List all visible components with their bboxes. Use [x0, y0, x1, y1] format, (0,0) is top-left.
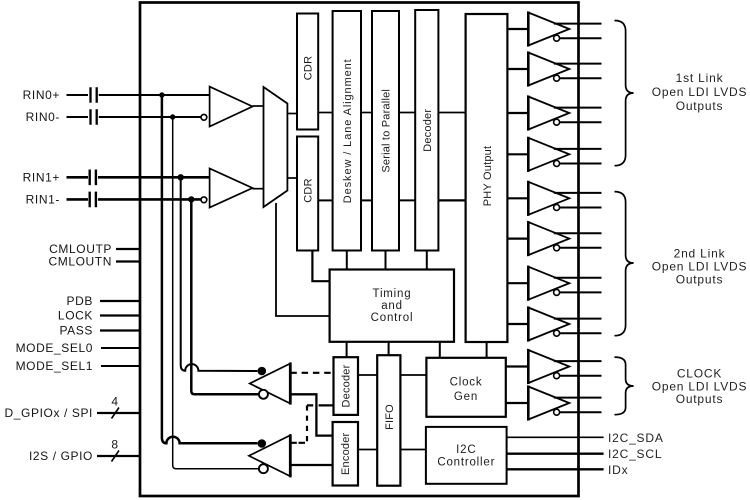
svg-text:8: 8: [111, 438, 118, 452]
capacitor on RIN1-: [90, 192, 96, 208]
input amp U2 (RIN1): [210, 169, 253, 208]
wire from RIN1+ down to SPI GPIO buffer (with hop): [181, 177, 258, 371]
wire U2 output to mux: [253, 188, 265, 190]
svg-text:Encoder: Encoder: [340, 432, 352, 475]
svg-text:RIN1+: RIN1+: [23, 170, 60, 184]
svg-text:RIN1-: RIN1-: [26, 192, 60, 206]
wire Decoder to PHY (lower): [438, 199, 465, 201]
wire MODE_SEL1 stub: [101, 365, 141, 367]
wire FIFO to Clock Gen: [400, 374, 426, 376]
svg-text:and: and: [381, 300, 403, 312]
GPIO buffer Q1 (D_GPIOx/SPI, points left): [250, 364, 291, 404]
svg-text:LOCK: LOCK: [58, 309, 93, 323]
svg-text:FIFO: FIFO: [384, 404, 396, 430]
wire mux to CDR2: [287, 177, 297, 179]
wire RIN1- to amp U2 inverting input: [98, 198, 201, 201]
junction dot on Q1 top input: [258, 367, 267, 376]
Q1 base edge (thick): [289, 363, 292, 405]
block I2C Controller: [426, 427, 507, 484]
brace 2nd link: [615, 192, 634, 336]
LVDS output buffer B6: [507, 221, 601, 256]
block Timing and Control: [330, 270, 454, 342]
svg-text:I2S / GPIO: I2S / GPIO: [29, 449, 93, 463]
wire PHY bottom to Clock Gen: [486, 342, 488, 358]
svg-text:Control: Control: [371, 312, 414, 324]
svg-text:PHY Output: PHY Output: [482, 146, 494, 207]
wire PASS stub: [100, 329, 141, 331]
svg-text:Open LDI LVDS: Open LDI LVDS: [652, 260, 748, 274]
wire MODE_SEL0 stub: [101, 347, 141, 349]
wire Decoder(gpio) to FIFO: [358, 374, 377, 376]
LVDS output buffer B8: [507, 307, 601, 342]
LVDS output buffer B3: [507, 96, 601, 131]
svg-text:CDR: CDR: [303, 56, 315, 80]
block Serial to Parallel: [372, 11, 399, 251]
mux (lane select): [264, 87, 288, 207]
dashed wire Decoder(gpio) lower to vertical: [307, 404, 334, 406]
block CDR1: [297, 14, 318, 130]
wire Decoder to PHY (upper): [438, 112, 465, 114]
wire RIN0+ lead: [67, 94, 89, 96]
junction dot RIN1-: [188, 196, 194, 202]
svg-text:Timing: Timing: [373, 288, 412, 300]
dashed wire to Q2: [290, 442, 305, 444]
LVDS clock buffer B10: [528, 386, 601, 421]
block FIFO: [377, 355, 400, 486]
wire RIN0- lead: [67, 116, 89, 118]
bubble on Q1 bottom input: [259, 390, 268, 399]
block Decoder (main): [415, 10, 438, 251]
svg-text:Controller: Controller: [437, 457, 495, 469]
junction dot RIN0-: [170, 114, 175, 119]
svg-text:4: 4: [111, 395, 118, 409]
wire I2S/GPIO stub: [97, 455, 141, 457]
svg-text:Outputs: Outputs: [676, 99, 724, 113]
block PHY Output: [466, 14, 508, 342]
wire mux bottom to Timing and Control: [276, 203, 330, 316]
svg-text:D_GPIOx / SPI: D_GPIOx / SPI: [5, 406, 94, 420]
svg-text:Outputs: Outputs: [676, 392, 724, 406]
wire mux to CDR1: [287, 113, 297, 115]
svg-text:PDB: PDB: [67, 294, 93, 308]
wire Deskew to Serial (upper): [361, 112, 372, 114]
svg-text:I2C_SCL: I2C_SCL: [608, 447, 662, 461]
svg-text:I2C: I2C: [456, 444, 476, 456]
bubble on Q2 bottom input: [259, 464, 268, 473]
wire Timing to FIFO: [388, 342, 390, 355]
junction dot on Q2 top input: [258, 439, 267, 448]
bus width slash 8 on I2S: [112, 451, 120, 462]
bubble on U1 inverting input: [201, 114, 207, 120]
wire Clock Gen to clock buffer B10: [506, 402, 529, 404]
svg-text:MODE_SEL0: MODE_SEL0: [16, 341, 93, 355]
svg-text:Decoder: Decoder: [422, 109, 434, 152]
capacitor on RIN0-: [91, 109, 97, 125]
block Encoder: [333, 422, 358, 486]
wire Serial to Decoder (upper): [399, 112, 415, 114]
wire from RIN0- down to I2S GPIO buffer bubble: [173, 117, 259, 469]
wire Decoder bottom to Timing: [426, 251, 428, 270]
wire from RIN0+ down to I2S GPIO buffer (with hop): [162, 95, 258, 443]
svg-text:CMLOUTN: CMLOUTN: [48, 255, 112, 269]
svg-text:Gen: Gen: [454, 391, 478, 403]
bus width slash 4 on D_GPIOx: [112, 408, 120, 419]
svg-text:CDR: CDR: [303, 178, 315, 202]
LVDS output buffer B5: [507, 181, 601, 216]
wire CMLOUTP stub: [116, 248, 141, 250]
wire Clock Gen to clock buffer B9: [506, 365, 529, 367]
svg-text:1st Link: 1st Link: [676, 71, 724, 85]
wire I2C_SCL: [507, 453, 604, 455]
svg-text:Outputs: Outputs: [676, 273, 724, 287]
LVDS clock buffer B9: [528, 349, 601, 384]
block CDR2: [297, 137, 318, 251]
wire RIN0- to amp U1 inverting input: [99, 116, 201, 118]
wire LOCK stub: [100, 314, 141, 316]
dashed wire Decoder(gpio) to Q1: [290, 372, 333, 374]
block Deskew / Lane Alignment: [333, 11, 361, 251]
capacitor on RIN1+: [90, 170, 96, 186]
wire CDR1 to Deskew: [318, 112, 332, 114]
Q2 base edge (thick): [289, 434, 292, 477]
LVDS output buffer B1: [507, 12, 601, 47]
wire U1 output to mux: [253, 105, 265, 107]
wire CMLOUTN stub: [116, 260, 141, 262]
svg-text:Decoder: Decoder: [341, 364, 353, 407]
svg-text:IDx: IDx: [608, 463, 628, 477]
junction dot RIN0+: [159, 92, 164, 97]
capacitor on RIN0+: [91, 87, 97, 103]
solid wire Q1 to Encoder: [290, 394, 332, 435]
junction dot RIN1+: [178, 174, 184, 180]
LVDS output buffer B2: [507, 52, 601, 87]
wire Deskew bottom to Timing: [346, 251, 348, 270]
wire CDR2 bottom to Timing and Control: [312, 251, 329, 282]
IC outer boundary: [140, 3, 579, 497]
wire Deskew to Serial (lower): [361, 199, 372, 201]
wire I2C_SDA: [507, 436, 604, 438]
LVDS output buffer B4: [507, 137, 601, 172]
svg-text:RIN0+: RIN0+: [23, 88, 60, 102]
block Clock Gen: [426, 358, 505, 417]
svg-text:Deskew / Lane Alignment: Deskew / Lane Alignment: [342, 58, 354, 203]
wire Timing to Clock Gen: [439, 342, 441, 358]
wire Timing to Decoder (gpio): [346, 342, 348, 357]
svg-text:Open LDI LVDS: Open LDI LVDS: [652, 85, 748, 99]
GPIO buffer Q2 (I2S/GPIO, points left): [249, 435, 290, 476]
LVDS output buffer B7: [507, 266, 601, 301]
wire RIN1+ lead: [67, 176, 89, 179]
input amp U1 (RIN0): [210, 87, 253, 127]
solid wire Q2 to Encoder: [290, 464, 332, 466]
svg-text:I2C_SDA: I2C_SDA: [608, 431, 664, 445]
wire FIFO to I2C Controller: [400, 449, 426, 451]
svg-text:Clock: Clock: [450, 377, 483, 389]
wire Serial to Decoder (lower): [399, 199, 415, 201]
wire IDx: [507, 468, 604, 470]
wire from RIN1- down to SPI GPIO buffer bubble: [191, 199, 258, 394]
block Decoder (gpio): [334, 357, 359, 415]
wire Serial bottom to Timing: [385, 251, 387, 270]
svg-text:2nd Link: 2nd Link: [674, 247, 726, 261]
wire RIN0+ to amp U1: [99, 94, 210, 96]
bubble on U2 inverting input: [201, 197, 207, 203]
wire PDB stub: [100, 300, 141, 302]
wire CDR2 to Deskew: [318, 199, 332, 201]
svg-text:RIN0-: RIN0-: [26, 110, 60, 124]
wire Encoder to FIFO: [358, 449, 377, 451]
wire RIN1+ to amp U2: [98, 176, 210, 179]
wire RIN1- lead: [67, 198, 89, 201]
svg-text:PASS: PASS: [59, 324, 93, 338]
svg-text:MODE_SEL1: MODE_SEL1: [16, 359, 93, 373]
brace clock: [615, 357, 634, 415]
svg-text:Serial to Parallel: Serial to Parallel: [381, 89, 393, 173]
wire D_GPIOx/SPI stub: [97, 412, 141, 414]
brace 1st link: [615, 21, 634, 166]
